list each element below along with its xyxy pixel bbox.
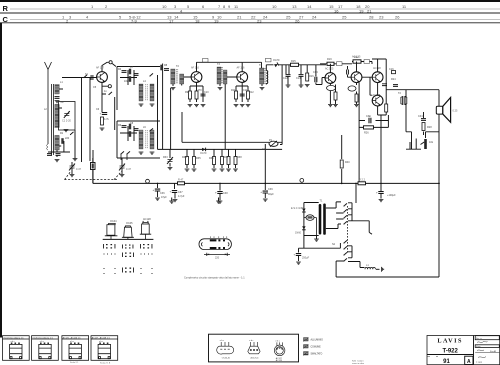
svg-text:R22: R22 — [354, 56, 359, 59]
right signature 1 — [477, 341, 488, 342]
resistor R27 — [186, 157, 189, 165]
resistor R4 — [129, 69, 131, 75]
capacitor C8b — [122, 126, 127, 128]
svg-text:8: 8 — [223, 4, 226, 9]
wire IFT2 to T3 — [216, 62, 242, 149]
switch S4 — [149, 128, 153, 131]
svg-text:OC44-45: OC44-45 — [222, 358, 231, 360]
junction dot bus-speaker — [438, 183, 440, 185]
capacitor C4 — [56, 154, 61, 156]
diode D2 — [202, 148, 206, 152]
svg-text:Scala 2:1 B: Scala 2:1 B — [100, 363, 111, 365]
resistor R22 horizontal — [353, 60, 361, 63]
svg-text:e b c: e b c — [99, 341, 103, 343]
svg-text:R37: R37 — [224, 156, 229, 159]
stadium marks top — [210, 239, 225, 241]
svg-text:S1: S1 — [85, 73, 89, 76]
svg-text:C30: C30 — [366, 115, 371, 118]
left margin bar — [0, 23, 2, 338]
svg-text:T4: T4 — [259, 64, 263, 67]
ruler R lower digits — [180, 9, 372, 14]
block frame wires — [117, 64, 171, 150]
wire T4 collector top — [320, 64, 352, 73]
ground C12 — [286, 85, 291, 87]
resistor R21 — [334, 92, 337, 100]
svg-text:25: 25 — [286, 14, 291, 19]
resistor R30 — [221, 157, 224, 165]
svg-text:T-922: T-922 — [443, 348, 459, 354]
resistor R16 — [306, 73, 309, 81]
pcb pattern row3 b — [122, 268, 134, 273]
battery ground b lead — [218, 198, 220, 202]
wire C15 to T5 — [348, 66, 352, 77]
pinout box 1 — [3, 336, 30, 361]
trafo gnd lead — [316, 236, 318, 240]
svg-text:F.to A3: F.to A3 — [490, 350, 497, 353]
ground C22 — [218, 201, 223, 203]
svg-text:R26: R26 — [364, 132, 369, 135]
transistor T4 — [325, 73, 336, 84]
wire T3 top — [236, 62, 248, 102]
svg-text:21: 21 — [237, 14, 242, 19]
pcb pattern row3 dots a — [104, 268, 116, 274]
capacitor C8 — [134, 129, 139, 131]
transistor T3 — [237, 72, 248, 83]
output transformer bars — [402, 96, 403, 105]
wire R27 — [186, 149, 188, 168]
IFT3 coil a — [260, 68, 264, 84]
IFT1 core — [177, 69, 178, 84]
svg-text:5: 5 — [187, 4, 190, 9]
wire CV1 — [71, 162, 73, 174]
resistor R31b — [234, 157, 237, 165]
svg-text:R 2.2: R 2.2 — [359, 179, 366, 182]
wire C23 — [264, 194, 266, 199]
svg-text:10: 10 — [272, 4, 277, 9]
boxed label B4 — [364, 60, 370, 64]
ground T5 — [354, 105, 359, 107]
svg-text:AF 116: AF 116 — [191, 67, 199, 70]
node circle M2 — [300, 179, 304, 183]
svg-text:26: 26 — [395, 14, 400, 19]
ground trafo — [314, 239, 319, 241]
switch bank 2 — [336, 240, 364, 277]
capacitor C10 — [201, 94, 206, 96]
wire R29 — [213, 149, 215, 168]
contact s5 — [343, 240, 347, 243]
wire after R15 — [299, 65, 327, 77]
svg-text:C16: C16 — [389, 68, 394, 71]
svg-text:e b c: e b c — [70, 341, 74, 343]
feedback drop wire — [341, 135, 343, 183]
svg-text:R16: R16 — [309, 75, 314, 78]
wire C13 gnd — [300, 77, 302, 85]
svg-text:23: 23 — [379, 14, 384, 19]
svg-text:10: 10 — [162, 4, 167, 9]
resistor R10 — [195, 91, 198, 99]
wire detector — [278, 65, 290, 145]
svg-text:40µF: 40µF — [268, 193, 274, 196]
svg-text:25: 25 — [342, 14, 347, 19]
svg-text:27: 27 — [299, 14, 304, 19]
capacitor C5 — [91, 75, 93, 80]
dimension arrows — [207, 254, 227, 256]
IFT3 core — [265, 68, 266, 84]
electrolytic C19 — [368, 116, 372, 124]
ground left bottom 2 — [73, 159, 78, 161]
svg-text:14: 14 — [174, 14, 179, 19]
resistor R32 — [340, 160, 343, 168]
coil L5 — [150, 84, 154, 101]
ground IFT3 — [260, 88, 265, 90]
wire R28 — [193, 149, 195, 168]
contact s4 — [343, 221, 347, 224]
wire IFT3 top — [242, 62, 273, 86]
title divider vertical — [473, 336, 475, 365]
resistor R8 — [160, 65, 162, 71]
svg-text:4: 4 — [86, 14, 89, 19]
svg-text:e b c: e b c — [40, 341, 44, 343]
svg-text:C5: C5 — [93, 86, 97, 89]
legend icon 1 — [303, 338, 309, 342]
right row 2 box — [475, 345, 499, 348]
coil L1 — [55, 85, 59, 95]
svg-text:3: 3 — [69, 14, 72, 19]
coil L3 — [55, 136, 59, 151]
switch S2 — [108, 92, 112, 95]
wire T2 top — [190, 62, 216, 102]
capacitor C9 — [164, 69, 169, 71]
arrow M1 out — [369, 232, 372, 234]
svg-text:R36: R36 — [209, 157, 214, 160]
svg-text:220: 220 — [65, 137, 70, 140]
ground T2a — [188, 105, 193, 107]
bottom return wire — [336, 276, 439, 278]
svg-text:A: A — [467, 359, 471, 365]
svg-text:Dis. n.: Dis. n. — [476, 338, 483, 340]
separator line 2 — [0, 22, 500, 24]
AGC wire lower — [158, 148, 283, 150]
transformer core bar a — [319, 204, 322, 235]
socket D — [248, 342, 260, 354]
svg-text:4.7µF: 4.7µF — [178, 195, 185, 198]
svg-text:C1 2-20: C1 2-20 — [62, 120, 72, 123]
svg-text:13: 13 — [292, 4, 297, 9]
separator line 1 — [0, 12, 500, 14]
wire RV1 — [169, 149, 171, 166]
svg-text:C12: C12 — [283, 77, 288, 80]
pcb pattern row3 dots c — [141, 268, 153, 274]
svg-text:R11: R11 — [231, 89, 236, 92]
svg-text:6: 6 — [202, 4, 205, 9]
svg-text:Complessivo circuito stampato: Complessivo circuito stampato visto dal … — [184, 277, 245, 280]
wire R31b — [235, 149, 237, 168]
svg-text:+100µF: +100µF — [387, 194, 396, 197]
svg-text:R15: R15 — [291, 60, 296, 63]
svg-text:220: 220 — [215, 257, 220, 260]
ground L7 — [150, 152, 155, 154]
ferrite rod — [51, 84, 53, 155]
switch bank 1 — [336, 183, 369, 232]
contact s1 — [343, 203, 347, 206]
svg-text:R19: R19 — [327, 58, 332, 61]
wire CV2 — [121, 158, 123, 174]
svg-text:E.S.C 1N60: E.S.C 1N60 — [291, 207, 305, 210]
svg-text:0.25: 0.25 — [453, 110, 458, 113]
contact s6 — [343, 246, 347, 249]
ground T3a — [234, 105, 239, 107]
svg-text:L1: L1 — [60, 81, 63, 84]
svg-text:2: 2 — [105, 4, 108, 9]
transistor T1 — [97, 72, 108, 83]
legend icon 2 — [303, 345, 309, 349]
output transformer windings — [401, 97, 407, 104]
jack wires — [406, 132, 439, 149]
IFT3 coil b loops — [266, 71, 268, 84]
title block frame — [427, 336, 500, 365]
feedback wires — [359, 83, 388, 184]
ruler C scale line — [10, 19, 500, 21]
svg-text:14: 14 — [307, 4, 312, 9]
IFT2 coil a — [217, 67, 221, 84]
socket round — [274, 342, 285, 355]
wire output pair — [372, 59, 402, 115]
antenna — [45, 62, 52, 144]
capacitor C7b — [122, 71, 127, 73]
title divider horizontal — [427, 354, 474, 356]
ground under L1 — [55, 101, 60, 103]
wire C22 — [219, 194, 221, 200]
svg-text:0.47: 0.47 — [76, 168, 81, 171]
boxed label B2 — [266, 58, 272, 62]
resistor R6 — [129, 124, 131, 130]
pcb pattern row1 c — [140, 244, 152, 249]
node circle M1 — [146, 179, 150, 183]
diode D4 — [302, 226, 306, 230]
svg-text:R38: R38 — [237, 156, 242, 159]
svg-text:22: 22 — [251, 14, 256, 19]
section2 wires — [117, 121, 160, 158]
svg-text:e b c: e b c — [220, 340, 224, 342]
pcb pattern row1 b — [122, 245, 133, 249]
resistor R9 — [189, 91, 192, 99]
oval inner box — [308, 216, 312, 218]
trimmer CV1 — [69, 164, 75, 171]
svg-text:24: 24 — [263, 14, 268, 19]
speaker cone — [443, 98, 451, 123]
primary wires — [304, 203, 319, 236]
ground T2b — [194, 105, 199, 107]
wire C21 — [174, 193, 176, 199]
transformer core bar b — [323, 204, 326, 235]
speaker driver — [436, 106, 443, 114]
transistor T2 — [191, 72, 202, 83]
coil L2 — [55, 105, 59, 128]
capacitor C16 — [382, 84, 387, 86]
node A circle — [109, 61, 112, 64]
ground L5 — [150, 104, 155, 106]
transistor can 2 — [122, 226, 134, 240]
svg-text:3: 3 — [174, 4, 177, 9]
wire IFT1 to T2 — [173, 77, 191, 86]
secondary wires — [326, 202, 341, 229]
svg-text:1N60: 1N60 — [295, 232, 302, 235]
switch S3 — [149, 73, 153, 76]
electrolytic C23 — [264, 144, 266, 190]
ground T4b — [333, 105, 338, 107]
wire trafo to speaker — [402, 90, 439, 150]
svg-text:T. 922: T. 922 — [476, 362, 483, 364]
svg-text:AC 125: AC 125 — [325, 68, 334, 71]
resistor R29 — [213, 157, 216, 165]
switch S1b — [83, 75, 87, 78]
padder bar — [92, 164, 94, 169]
right column top box — [475, 336, 499, 340]
diode D3 — [302, 209, 306, 213]
oval label PU — [306, 215, 314, 221]
padder dark — [91, 163, 96, 170]
tuned circuit box — [59, 102, 76, 131]
oval label T5 — [348, 86, 356, 91]
wire C25 — [298, 256, 300, 261]
dimension line — [204, 253, 230, 256]
svg-text:T2: T2 — [176, 65, 180, 68]
legend icon 3 — [303, 352, 309, 356]
ground C13 — [299, 85, 304, 87]
IFT2 coil b — [223, 70, 227, 84]
svg-text:C37: C37 — [178, 191, 183, 194]
svg-text:4.7k: 4.7k — [104, 118, 109, 121]
gang dashed link — [65, 171, 123, 180]
electrolytic C24 — [376, 191, 384, 195]
ground C21 — [173, 200, 178, 202]
wire to T4 — [316, 78, 325, 85]
pcb pattern row2 dots c — [141, 254, 153, 255]
trimmer RV1 — [167, 157, 173, 164]
svg-text:28: 28 — [369, 14, 374, 19]
resistor R11 — [235, 91, 238, 99]
pcb pattern row2 dots a — [104, 254, 116, 255]
battery ground a lead — [171, 198, 173, 202]
svg-text:LAVIS: LAVIS — [437, 338, 463, 345]
ruler C lower digits — [66, 18, 300, 23]
ground CV1 — [70, 175, 75, 177]
resistor R31 — [227, 157, 230, 165]
wire T5 emitter — [356, 83, 358, 104]
ground C24 — [379, 200, 384, 202]
ground C25 — [296, 262, 301, 264]
svg-text:0.47: 0.47 — [126, 168, 131, 171]
svg-text:L4: L4 — [143, 80, 146, 83]
ground T2c — [201, 105, 206, 107]
RC across output — [423, 112, 425, 135]
bus inline resistor — [358, 182, 366, 185]
svg-text:S2: S2 — [332, 243, 336, 246]
svg-text:C8: C8 — [130, 122, 134, 125]
bank2 wires — [336, 246, 364, 277]
resistor R23 — [355, 94, 358, 102]
resistor R28 — [193, 157, 196, 165]
speaker line vertical — [438, 90, 440, 277]
ground L4 — [139, 104, 144, 106]
stadium end notch left — [201, 243, 202, 247]
svg-text:9: 9 — [228, 4, 231, 9]
electrolytic C6 — [100, 112, 108, 116]
ground under box — [64, 130, 69, 132]
switch S1a — [70, 132, 74, 135]
section1 bias wires — [120, 70, 137, 85]
svg-text:L1: L1 — [366, 264, 369, 267]
IFT1 coil a — [171, 69, 175, 84]
svg-text:SMALTATO: SMALTATO — [311, 353, 323, 356]
svg-text:10k: 10k — [429, 141, 434, 144]
wire C12 gnd — [287, 77, 289, 85]
contact s3 — [343, 215, 347, 218]
wire coil gnd — [376, 268, 380, 270]
capacitor C7 — [134, 74, 139, 76]
right signature 3 — [478, 356, 486, 359]
svg-text:R34: R34 — [182, 156, 187, 159]
resistor R2 — [61, 138, 63, 144]
capacitor C12 — [286, 75, 291, 77]
junction dots bus — [157, 183, 159, 185]
small ticks in 91 cell — [427, 356, 438, 358]
ground L6 — [139, 152, 144, 154]
svg-text:OC45: OC45 — [126, 222, 133, 225]
ground IFT2 — [218, 88, 223, 90]
ground R16 — [305, 85, 310, 87]
svg-text:R24: R24 — [391, 78, 396, 81]
wire C24 — [380, 194, 382, 199]
resistor R19 horizontal — [327, 62, 334, 65]
ground T3c — [246, 105, 251, 107]
antenna coupling squiggle — [47, 144, 48, 150]
sockets box — [209, 334, 299, 362]
oval label T4 — [327, 85, 336, 90]
capacitor C13 — [299, 75, 304, 77]
contact s8 — [343, 258, 347, 261]
pcb pattern row1 a — [103, 244, 115, 249]
capacitor C3 — [47, 154, 52, 156]
resistor R7 — [129, 131, 131, 137]
right divider line — [475, 352, 499, 354]
electrolytic C21 — [174, 183, 176, 189]
svg-text:R: R — [3, 4, 9, 13]
transistor T6 — [372, 72, 383, 83]
resistor R3 — [101, 117, 104, 125]
svg-text:R4: R4 — [118, 68, 122, 71]
resistor R39 — [385, 104, 388, 112]
pinout box 3 — [62, 336, 89, 361]
svg-text:AC128: AC128 — [373, 94, 381, 97]
ground left bottom 1 — [55, 160, 60, 162]
resistor R24 cluster — [392, 71, 396, 74]
ground IFT1 — [171, 88, 176, 90]
stadium ticks — [211, 236, 227, 238]
svg-text:e b c: e b c — [11, 341, 15, 343]
electrolytic C20 — [157, 183, 159, 188]
IFT1 coil b — [180, 74, 184, 84]
wires S5S6 — [121, 154, 127, 160]
battery ground a — [169, 201, 174, 203]
pinout box 2 — [32, 336, 59, 361]
svg-text:AC128: AC128 — [276, 359, 283, 362]
component value labels scatter — [44, 56, 434, 246]
ground C23 — [263, 199, 268, 201]
transistor can 1 — [105, 223, 118, 239]
variable capacitor C1 — [64, 111, 70, 118]
svg-text:C39: C39 — [268, 188, 273, 191]
